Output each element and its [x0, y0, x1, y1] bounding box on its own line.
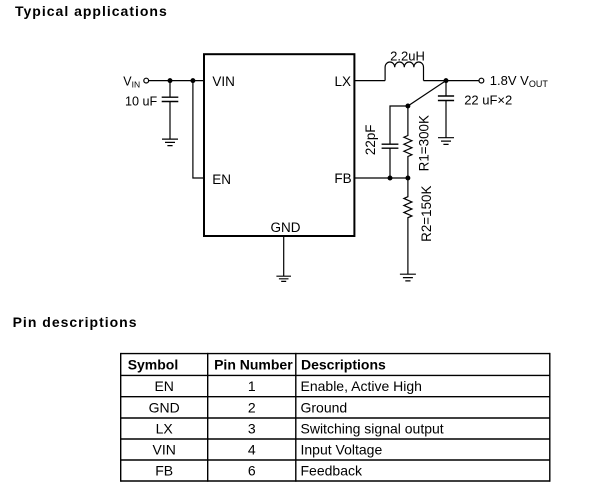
junction dot (divider top node) [405, 104, 410, 109]
svg-text:FB: FB [155, 463, 173, 479]
svg-text:GND: GND [271, 220, 301, 235]
wire EN feed [193, 81, 204, 178]
svg-text:Enable, Active High: Enable, Active High [301, 378, 422, 394]
table row FB [155, 463, 363, 479]
svg-text:LX: LX [334, 74, 351, 89]
wire GND pin [283, 236, 285, 276]
ground (R2) [400, 274, 416, 281]
table row LX [156, 421, 444, 437]
svg-text:VIN: VIN [123, 75, 140, 90]
svg-text:Symbol: Symbol [128, 357, 179, 373]
svg-text:22pF: 22pF [363, 125, 378, 156]
svg-text:EN: EN [154, 378, 173, 394]
junction dot (input cap tap) [168, 78, 173, 83]
heading: Pin descriptions [13, 315, 138, 329]
node VOUT terminal [479, 78, 484, 83]
svg-text:10 uF: 10 uF [125, 95, 158, 109]
junction dot (output node) [444, 78, 449, 83]
pin description table grid [121, 353, 550, 482]
junction dot (EN branch tap) [190, 78, 195, 83]
svg-text:3: 3 [248, 421, 256, 437]
capacitor C1 10uF [162, 81, 179, 140]
svg-text:FB: FB [334, 171, 351, 186]
capacitor C3 22pF [382, 144, 399, 178]
resistor R1 300K [404, 106, 412, 178]
svg-text:6: 6 [248, 463, 256, 479]
svg-text:VIN: VIN [153, 442, 176, 458]
svg-text:2: 2 [248, 399, 256, 415]
IC U1 [204, 54, 354, 236]
wire VIN input to IC [149, 80, 204, 82]
table row VIN [153, 442, 383, 458]
wire divider top to C3 [390, 106, 408, 144]
svg-text:22 uF×2: 22 uF×2 [464, 92, 512, 107]
svg-text:GND: GND [149, 399, 180, 415]
svg-text:1.8V VOUT: 1.8V VOUT [490, 73, 549, 89]
svg-text:Pin Number: Pin Number [214, 357, 293, 373]
svg-text:Feedback: Feedback [301, 463, 363, 479]
capacitor C2 22uF x2 [438, 81, 454, 138]
svg-text:Switching signal output: Switching signal output [301, 421, 444, 437]
table row EN [154, 378, 421, 394]
node VIN input terminal [144, 78, 149, 83]
inductor L1 2.2uH [385, 62, 423, 81]
table row GND [149, 399, 348, 415]
junction dot (FB / C3) [388, 176, 393, 181]
svg-text:4: 4 [248, 442, 256, 458]
svg-text:LX: LX [156, 421, 174, 437]
ground (GND pin) [276, 276, 291, 281]
svg-text:VIN: VIN [212, 74, 235, 89]
svg-text:1: 1 [248, 378, 256, 394]
resistor R2 150K [404, 178, 412, 274]
svg-text:2.2uH: 2.2uH [390, 48, 425, 63]
junction dot (FB / R1-R2) [405, 176, 410, 181]
svg-text:Ground: Ground [301, 399, 348, 415]
wire LX to inductor [354, 80, 385, 82]
wire output to feedback divider (diagonal) [408, 81, 446, 106]
wire FB [354, 177, 408, 179]
svg-text:Descriptions: Descriptions [301, 357, 386, 373]
svg-text:Input Voltage: Input Voltage [301, 442, 383, 458]
ground (output cap) [438, 138, 454, 145]
svg-text:EN: EN [212, 172, 231, 187]
svg-text:R2=150K: R2=150K [419, 186, 434, 242]
wire inductor to VOUT terminal [424, 80, 480, 82]
ground (input cap) [162, 139, 178, 146]
svg-text:R1=300K: R1=300K [417, 115, 432, 171]
heading: Typical applications [15, 4, 168, 18]
table header row [128, 357, 386, 373]
